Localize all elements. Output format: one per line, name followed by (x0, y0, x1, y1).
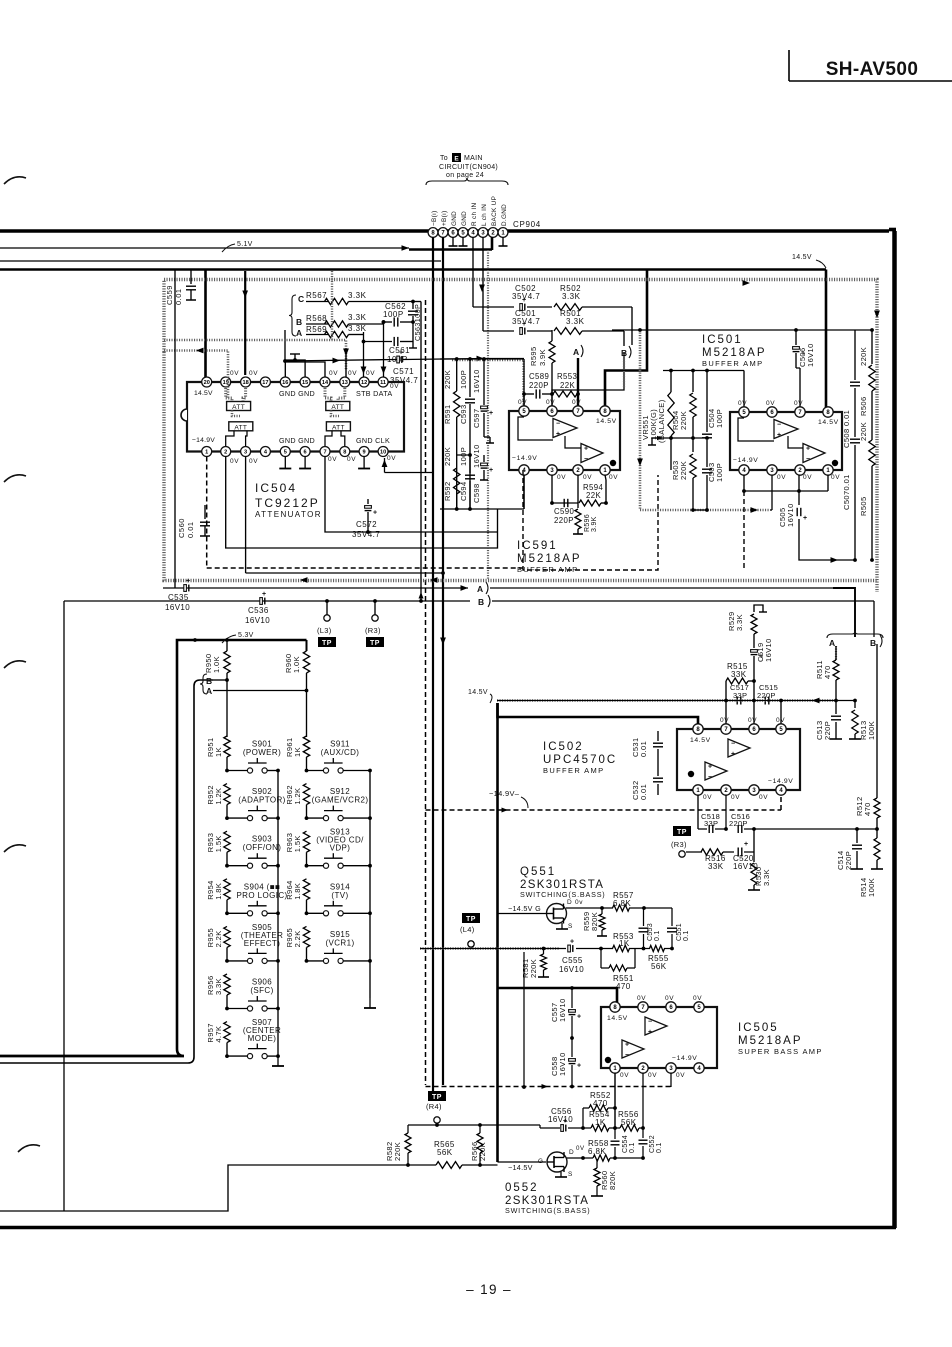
svg-text:100K: 100K (867, 878, 876, 897)
svg-text:(SFC): (SFC) (250, 986, 273, 995)
svg-text:22K: 22K (586, 491, 601, 500)
svg-text:B: B (296, 317, 302, 327)
resistor R560 820K (591, 1159, 617, 1196)
svg-text:0V: 0V (759, 794, 768, 801)
svg-text:220K: 220K (529, 959, 538, 978)
IC504 label block (255, 481, 322, 519)
svg-text:0V: 0V (329, 370, 338, 377)
wire A input drop to IC591 pin7 (577, 358, 579, 411)
capacitor C557 16V10 (550, 988, 581, 1040)
IC505 label 14.5V (607, 1015, 628, 1022)
IC501 pin7 riser (799, 368, 801, 407)
svg-text:1: 1 (205, 450, 208, 456)
wire bottom rail to IC501 pin3 (691, 508, 709, 512)
svg-text:+: + (556, 431, 560, 438)
svg-text:14.5V: 14.5V (818, 419, 839, 426)
IC504 labels GND GND bottom (279, 436, 315, 445)
wire C signal drop (413, 302, 424, 603)
capacitor C594 (457, 453, 475, 509)
resistor R558 6.8K (566, 1139, 643, 1161)
svg-text:IC504: IC504 (255, 481, 297, 495)
svg-text:B: B (478, 597, 484, 607)
svg-text:IC501: IC501 (702, 334, 743, 346)
wire feedback to pin1 (799, 475, 828, 491)
svg-text:0V: 0V (230, 370, 239, 377)
svg-text:0V: 0V (583, 474, 592, 481)
page curl artifact 2 (4, 475, 26, 482)
label C594 100P (459, 447, 468, 501)
connector CP904 heading (439, 153, 498, 179)
svg-text:0V: 0V (546, 399, 555, 406)
svg-text:0.1: 0.1 (656, 1142, 663, 1153)
svg-text:C593: C593 (459, 404, 468, 424)
svg-text:0V: 0V (776, 717, 785, 724)
wire Q551 gate row (420, 947, 674, 951)
IC501 top pins 5-8 (739, 407, 833, 417)
IC501 0V labels bottom (777, 474, 840, 481)
IC502 pin risers (726, 701, 781, 725)
svg-text:3.3K: 3.3K (348, 324, 367, 333)
IC591 bottom pins 4-1 (519, 465, 610, 475)
resistor R960 1.0K (284, 640, 310, 737)
transistor Q552 label block (505, 1182, 590, 1215)
svg-text:GND GND: GND GND (279, 389, 315, 398)
label C560 0.01 (177, 518, 195, 538)
resistor R530 3.3K (748, 827, 771, 890)
resistor R552 470 (583, 1091, 615, 1128)
wire IC504 pin7 drop (325, 457, 498, 533)
gray wire att loop to shield (164, 348, 228, 399)
resistor R512 470 (855, 644, 880, 829)
capacitor C536 (260, 591, 266, 604)
gray wire mid column (331, 271, 333, 340)
node C (298, 294, 304, 304)
capacitor C514 220P (836, 829, 863, 870)
resistor R551 470 (601, 949, 635, 992)
svg-text:C594: C594 (459, 481, 468, 501)
svg-text:A: A (829, 638, 835, 648)
capacitor C598 (480, 455, 493, 480)
node B (296, 317, 302, 327)
ground Q551 source (556, 923, 568, 929)
resistor R963 1.5K (285, 831, 310, 865)
svg-text:14.5V: 14.5V (194, 390, 213, 397)
svg-text:+: + (803, 515, 807, 522)
capacitor C590 (552, 499, 575, 525)
svg-text:R591: R591 (443, 404, 452, 424)
IC505 op-amp A (645, 1017, 667, 1036)
svg-text:11: 11 (380, 380, 386, 386)
resistor R955 2.2K (206, 926, 230, 960)
svg-text:1.8K: 1.8K (293, 883, 302, 900)
IC502 op-amp B (705, 762, 727, 781)
svg-text:TP: TP (466, 916, 476, 923)
svg-text:EFFECT): EFFECT) (244, 939, 281, 948)
svg-text:470: 470 (593, 1099, 608, 1108)
svg-text:14.5V: 14.5V (690, 737, 711, 744)
label C502 35V4.7 (512, 284, 540, 301)
ground at IC504 pin 5 (279, 457, 291, 469)
svg-text:−: − (625, 1052, 629, 1059)
IC501 label -14.9V (733, 457, 758, 464)
svg-text:GND GND: GND GND (279, 436, 315, 445)
svg-text:0V: 0V (766, 400, 775, 407)
resistor R555 56K (648, 946, 669, 972)
connector CP904 pin name D.GND (501, 204, 508, 226)
test point L3 (317, 599, 336, 647)
switch S902 (225, 787, 286, 821)
wire filter bottom rail (440, 470, 524, 511)
capacitor C561 (362, 337, 417, 348)
svg-text:0V: 0V (831, 474, 840, 481)
IC504 ATT block 1 (227, 402, 251, 412)
IC501 op-amp A (738, 418, 798, 441)
resistor R514 100K (859, 829, 883, 897)
capacitor C532 0.01 (631, 760, 663, 800)
svg-text:R592: R592 (443, 481, 452, 501)
svg-text:13: 13 (342, 380, 348, 386)
svg-text:1.8K: 1.8K (214, 883, 223, 900)
svg-text:C536: C536 (248, 606, 269, 615)
svg-text:BUFFER AMP: BUFFER AMP (702, 359, 763, 368)
svg-text:8: 8 (343, 450, 346, 456)
IC504 labels STB DATA (356, 389, 392, 398)
wire bottom step from left edge (0, 1163, 498, 1211)
svg-text:35V4.7: 35V4.7 (512, 292, 540, 301)
svg-text:C589: C589 (529, 372, 549, 381)
svg-text:100P: 100P (459, 370, 468, 389)
svg-text:1.5K: 1.5K (293, 835, 302, 852)
switch right return bus (369, 771, 371, 999)
svg-text:+: + (262, 591, 266, 598)
IC504 DATA feed from pin 11 vertical (381, 320, 387, 377)
IC591 top pins 5-8 (519, 406, 610, 416)
page curl artifact 4 (4, 845, 26, 852)
svg-text:220K: 220K (443, 370, 452, 389)
svg-text:220P: 220P (823, 721, 832, 740)
resistor R582 220K (385, 1125, 411, 1165)
capacitor C553 0.1 (639, 908, 662, 949)
resistor R557 6.8K (613, 891, 634, 911)
svg-text:3.3K: 3.3K (348, 313, 367, 322)
IC504 body (181, 382, 404, 452)
switch S914 (305, 882, 372, 916)
IC501 dashed segment (744, 491, 745, 570)
IC504 label 14.5V (194, 390, 213, 397)
svg-text:0V: 0V (648, 1072, 657, 1079)
svg-text:CP904: CP904 (513, 220, 541, 229)
svg-text:220P: 220P (844, 851, 853, 870)
capacitor C556 16V10 (548, 1107, 591, 1131)
label R592 220K (443, 447, 452, 501)
svg-text:16V10: 16V10 (558, 998, 567, 1022)
resistor R581 220K (521, 949, 549, 979)
svg-text:CIRCUIT(CN904): CIRCUIT(CN904) (439, 164, 498, 171)
wire -B(I) vertical (432, 237, 434, 1091)
capacitor C571 (397, 350, 403, 363)
svg-text:SWITCHING(S.BASS): SWITCHING(S.BASS) (520, 890, 605, 899)
svg-text:100P: 100P (715, 409, 724, 428)
IC505 0V labels top (637, 995, 702, 1002)
svg-text:220K: 220K (393, 1142, 402, 1161)
resistor R596 3.9K (573, 475, 598, 534)
capacitor C515 220P (757, 683, 778, 705)
wire B branch vertical (0, 678, 229, 1063)
wire B gray drop (637, 330, 772, 513)
svg-text:4.7K: 4.7K (214, 1026, 223, 1043)
wire filter top rail (440, 357, 524, 411)
svg-text:18: 18 (242, 380, 248, 386)
svg-text:35V4.7: 35V4.7 (512, 317, 540, 326)
wire C506 rail (612, 328, 872, 332)
svg-text:16: 16 (282, 380, 288, 386)
wire B input drop to IC591 pin6 (552, 352, 624, 411)
IC591 0V labels top (518, 399, 581, 406)
switch S906 (225, 978, 280, 1012)
svg-text:−: − (806, 456, 810, 463)
IC505 top pins 8-5 (610, 1002, 704, 1012)
wire A signal row (497, 698, 836, 704)
svg-text:220K: 220K (859, 347, 868, 366)
wire IC591 pin4 to filter (523, 475, 525, 509)
svg-text:56K: 56K (437, 1148, 453, 1157)
IC591 label 14.5V (596, 418, 617, 425)
label C536 16V10 (245, 606, 270, 625)
label C561 100P (387, 346, 410, 364)
svg-text:0V: 0V (803, 474, 812, 481)
svg-text:3.9K: 3.9K (591, 516, 598, 532)
svg-text:ATT: ATT (234, 424, 247, 431)
capacitor C506 (793, 330, 815, 368)
label -14.5V at Q552 (508, 1163, 533, 1172)
svg-text:0V: 0V (576, 1145, 585, 1152)
svg-text:33P: 33P (704, 819, 718, 828)
label -14.9V dashed rail (489, 789, 528, 808)
svg-text:5.3V: 5.3V (238, 632, 254, 639)
svg-text:VDP): VDP) (330, 844, 351, 853)
capacitor C519 (751, 638, 773, 700)
svg-text:0V: 0V (665, 995, 674, 1002)
resistor R511 470 (815, 646, 839, 701)
IC504 top pins 20-11 (202, 377, 388, 387)
svg-text:1.5K: 1.5K (214, 835, 223, 852)
resistor R951 1K (206, 736, 230, 770)
IC502 top pins 8-5 (693, 724, 786, 734)
IC504 STB feed vertical (361, 332, 367, 377)
IC502 op-amp A (728, 739, 750, 758)
svg-text:R596: R596 (584, 514, 591, 532)
svg-text:B: B (870, 638, 876, 648)
switch S907 (225, 1018, 281, 1059)
svg-text:on page 24: on page 24 (446, 172, 484, 179)
page curl artifact 1 (4, 177, 26, 184)
svg-text:0V: 0V (777, 474, 786, 481)
capacitor C593 (465, 359, 475, 509)
svg-text:C590: C590 (554, 507, 575, 516)
IC502 label 14.5V (690, 737, 711, 744)
svg-text:D: D (567, 899, 572, 906)
svg-text:7: 7 (323, 450, 326, 456)
svg-text:−: − (584, 456, 588, 463)
svg-text:A: A (477, 584, 483, 594)
resistor R566 220K (470, 1125, 487, 1167)
svg-text:TP: TP (322, 640, 332, 647)
svg-text:16V10: 16V10 (548, 1115, 573, 1124)
svg-text:(L4): (L4) (460, 925, 475, 934)
resistor R961 1K (285, 736, 310, 770)
svg-text:−14.5V: −14.5V (508, 1163, 533, 1172)
svg-text:10: 10 (380, 450, 386, 456)
svg-text:14.5V: 14.5V (792, 254, 812, 261)
svg-text:0V: 0V (328, 456, 337, 463)
node A input (573, 345, 583, 357)
svg-text:(L3): (L3) (317, 626, 332, 635)
svg-text:0V: 0V (794, 400, 803, 407)
svg-text:5.1V: 5.1V (237, 241, 253, 248)
label 14.5V top right (792, 254, 826, 268)
node A mid (477, 582, 488, 594)
svg-text:14: 14 (322, 380, 329, 386)
svg-text:(R4): (R4) (426, 1102, 442, 1111)
svg-text:+: + (625, 1042, 629, 1049)
svg-text:To: To (440, 155, 448, 162)
wire 14.5V branch to IC504 pin 20 (204, 270, 207, 378)
capacitor C518 33P (698, 795, 726, 833)
svg-text:D: D (569, 1149, 574, 1156)
svg-text:0.1: 0.1 (683, 930, 690, 941)
IC502 0V labels top (720, 717, 785, 724)
gray wire to pin 13 (164, 340, 349, 377)
svg-text:+: + (577, 1062, 581, 1069)
resistor R504 220K (671, 370, 696, 438)
IC504 ATT block 2 (326, 402, 350, 412)
svg-text:0V: 0V (693, 995, 702, 1002)
schematic sheet right border (889, 230, 896, 1229)
resistor R559 820K (582, 908, 607, 936)
title text SH-AV500 (826, 59, 919, 80)
resistor network input brace (289, 295, 296, 336)
svg-text:ATT: ATT (232, 404, 245, 411)
resistor R553 1K (613, 932, 634, 952)
IC591 dashed enclosure (523, 470, 658, 570)
svg-text:1.0K: 1.0K (212, 656, 221, 673)
label C571 35V4.7 (390, 367, 418, 385)
svg-text:16V10: 16V10 (764, 638, 773, 662)
svg-text:820K: 820K (608, 1171, 617, 1190)
node A switch (206, 686, 212, 696)
resistor R569 (306, 324, 367, 338)
svg-text:+: + (777, 432, 781, 439)
transistor Q551 label block (520, 866, 605, 899)
svg-text:(R3): (R3) (671, 840, 687, 849)
svg-text:(POWER): (POWER) (243, 748, 281, 757)
IC591 feedback R595 (529, 330, 555, 411)
svg-text:S: S (568, 923, 573, 930)
switch S915 (305, 930, 372, 964)
IC505 pin1 feedback riser (614, 1073, 616, 1130)
IC504 CLK feed into pin 10 (382, 458, 433, 473)
svg-text:GND: GND (461, 211, 468, 226)
connector CP904 pin name GND 5 (461, 211, 468, 226)
test point R3 (365, 599, 384, 647)
resistor R565 56K (434, 1140, 462, 1168)
svg-text:220K: 220K (443, 447, 452, 466)
svg-text:+: + (708, 764, 712, 771)
svg-text:SUPER BASS AMP: SUPER BASS AMP (738, 1047, 823, 1056)
svg-text:TP: TP (677, 829, 687, 836)
capacitor C562 (382, 317, 415, 326)
connector CP904 pin name -B(I) (431, 210, 438, 226)
svg-text:3.3K: 3.3K (348, 291, 367, 300)
svg-text:SWITCHING(S.BASS): SWITCHING(S.BASS) (505, 1206, 590, 1215)
IC591 op-amp A (518, 417, 577, 440)
svg-text:5: 5 (284, 450, 287, 456)
IC501 0V labels top (738, 400, 803, 407)
svg-text:(OFF/ON): (OFF/ON) (243, 843, 282, 852)
wire A branch (213, 689, 308, 693)
schematic sheet bottom border (0, 1226, 896, 1230)
svg-text:M5218AP: M5218AP (738, 1035, 803, 1047)
resistor R568 (306, 313, 384, 327)
switch S904 (225, 882, 287, 916)
svg-text:0V: 0V (249, 370, 258, 377)
svg-text:0552: 0552 (505, 1182, 539, 1194)
capacitor C502 (520, 297, 552, 310)
capacitor C516 220P (724, 795, 879, 833)
svg-text:+: + (373, 509, 377, 516)
wire IC501 pin4 route (742, 475, 799, 493)
page curl artifact 5 (18, 1145, 40, 1152)
svg-text:33K: 33K (708, 862, 724, 871)
wire IC504 pin2 drop (226, 457, 498, 549)
svg-text:22K: 22K (560, 381, 575, 390)
svg-text:C552: C552 (649, 1135, 656, 1153)
svg-text:0V: 0V (637, 995, 646, 1002)
resistor R503 220K (671, 438, 696, 510)
svg-text:D.GND: D.GND (501, 204, 508, 226)
svg-text:E: E (454, 156, 459, 163)
resistor R594 22K (550, 475, 608, 506)
svg-text:C597: C597 (472, 408, 481, 428)
svg-text:100P: 100P (383, 310, 404, 319)
connector CP904 label (513, 220, 541, 229)
label R501 3.3K (560, 309, 585, 326)
switch S911 (305, 740, 372, 774)
transistor Q551 (547, 899, 584, 930)
svg-text:−14.9V: −14.9V (768, 778, 793, 785)
IC591 op-amp B (565, 436, 603, 463)
svg-text:1.2K: 1.2K (293, 788, 302, 805)
IC504 bottom pins 1-10 (202, 447, 388, 457)
svg-text:−14.9V: −14.9V (733, 457, 758, 464)
IC591 label block (517, 540, 582, 574)
svg-text:0V: 0V (731, 794, 740, 801)
right feedback column C507 0.01 (842, 439, 860, 560)
connector CP904 pin name GND 6 (451, 211, 458, 226)
wire -14.9V dashed rail vertical (425, 300, 427, 1085)
resistor R553 22K (553, 372, 580, 397)
svg-text:1.0K: 1.0K (292, 656, 301, 673)
wire -14.9V dashed rail bottom run (426, 1084, 674, 1089)
svg-text:19: 19 (223, 380, 229, 386)
IC501 label 14.5V (818, 419, 839, 426)
test point R3 lower (671, 826, 691, 857)
wire R ch path (473, 285, 514, 308)
IC504 att wiring loops (226, 388, 345, 446)
capacitor C501 (520, 321, 552, 334)
ground Q552 source (555, 1172, 567, 1177)
schematic sheet top border (0, 229, 889, 233)
